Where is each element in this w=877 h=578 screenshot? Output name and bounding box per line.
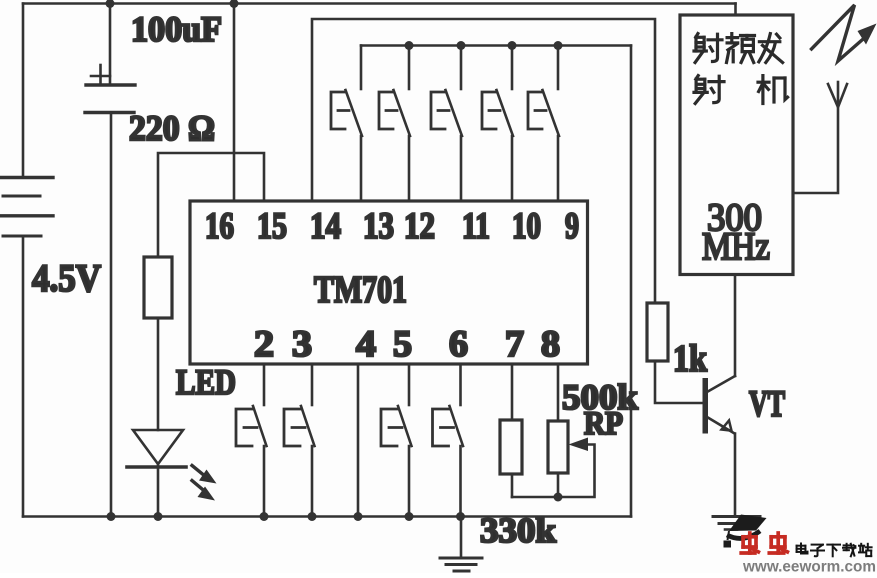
svg-text:1k: 1k [673, 338, 708, 380]
svg-text:9: 9 [565, 206, 579, 247]
pin label 2 [254, 324, 274, 365]
svg-text:220 Ω: 220 Ω [129, 108, 215, 148]
svg-text:8: 8 [541, 324, 560, 365]
wire top supply rail [23, 2, 736, 5]
ground (bottom bus) [440, 517, 482, 572]
node bus dots top [405, 41, 563, 50]
pin label 12 [404, 206, 435, 247]
svg-text:MHz: MHz [702, 225, 770, 268]
pin label 13 [363, 206, 394, 247]
svg-text:13: 13 [363, 206, 394, 247]
wire box top to supply [734, 4, 737, 16]
label VT [749, 384, 785, 425]
node RP bottom junction [554, 493, 563, 502]
svg-text:4.5V: 4.5V [32, 257, 101, 300]
svg-text:3: 3 [292, 324, 312, 365]
pin label 6 [449, 324, 468, 365]
svg-text:RP: RP [584, 406, 623, 442]
RP wiper arrow [569, 438, 589, 452]
node bus dots bottom [107, 512, 466, 521]
svg-text:6: 6 [449, 324, 468, 365]
wire pin4 to bus [357, 364, 360, 517]
pin label 11 [462, 206, 490, 247]
antenna [793, 82, 847, 193]
svg-text:7: 7 [505, 324, 524, 365]
svg-text:4: 4 [356, 324, 376, 365]
RF radiation zigzag arrow [812, 5, 877, 61]
pin label 5 [393, 324, 412, 365]
potentiometer RP 500k (pin8) [548, 364, 568, 497]
resistor R 220ohm [144, 257, 172, 318]
watermark url [742, 559, 876, 576]
label LED [176, 362, 236, 402]
svg-text:LED: LED [176, 362, 236, 402]
pin label 14 [310, 206, 341, 247]
label 300 [707, 196, 762, 239]
switch S2 (pin12) [379, 46, 410, 202]
label RF transmitter chinese 射频发/射机 (drawn) [694, 34, 788, 104]
label 220 ohm [129, 108, 215, 148]
switch S5 (pin9) [528, 46, 559, 202]
switch S9 (pin6) [433, 364, 464, 517]
switch S1 (pin13) [331, 46, 362, 202]
node supply-cap junction [106, 0, 115, 8]
svg-text:16: 16 [205, 206, 234, 247]
IC U1 TM701 [190, 201, 588, 364]
wire pin14 to 1k (upper loop) [312, 19, 655, 303]
switch S4 (pin10) [482, 46, 513, 202]
pin label 4 [356, 324, 376, 365]
pin label 15 [257, 206, 287, 247]
label 4.5V [32, 257, 101, 300]
pin label 3 [292, 324, 312, 365]
switch S8 (pin5) [381, 364, 412, 517]
capacitor C 100uF [85, 4, 135, 517]
label 330k [480, 511, 557, 550]
label 100uF [131, 9, 222, 49]
label 500k [562, 377, 638, 417]
svg-text:12: 12 [404, 206, 435, 247]
svg-text:100uF: 100uF [131, 9, 222, 49]
watermark graduation cap [724, 515, 767, 548]
svg-text:TM701: TM701 [314, 269, 407, 311]
watermark text dianzi xiazaizhan (drawn) [797, 544, 872, 557]
svg-text:10: 10 [512, 206, 541, 247]
svg-text:2: 2 [254, 324, 274, 365]
svg-text:www.eeworm.com: www.eeworm.com [742, 559, 876, 574]
watermark chongchong red characters [741, 533, 787, 553]
svg-text:15: 15 [257, 206, 287, 247]
wire RP bottom net [512, 445, 595, 498]
switch S7 (pin3) [284, 364, 315, 517]
label MHz [702, 225, 770, 268]
resistor R 1k [647, 303, 702, 403]
wire common line right side (bus to ground bus) [630, 46, 633, 517]
pin label 8 [541, 324, 560, 365]
pin label 10 [512, 206, 541, 247]
svg-text:VT: VT [749, 384, 785, 425]
node supply-pin16 junction [230, 0, 239, 8]
wire pin16 to supply [233, 4, 236, 202]
pin label 7 [505, 324, 524, 365]
wire 220R to pin15 [158, 153, 264, 257]
RF transmitter box [680, 15, 793, 275]
svg-text:5: 5 [393, 324, 412, 365]
wire bottom ground bus [23, 515, 631, 518]
label RP [584, 406, 623, 442]
svg-text:11: 11 [462, 206, 490, 247]
battery GB 4.5V [1, 4, 53, 517]
switch S6 (pin2) [236, 364, 267, 517]
ground (VT emitter) [713, 517, 760, 530]
transistor VT [703, 275, 736, 517]
LED emission arrows [192, 466, 217, 501]
svg-text:14: 14 [310, 206, 341, 247]
resistor R 330k (pin7) [500, 364, 522, 497]
pin label 9 [565, 206, 579, 247]
switch S3 (pin11) [431, 46, 462, 202]
LED [127, 318, 186, 517]
wire top switch bus [361, 44, 631, 47]
pin label 16 [205, 206, 234, 247]
label 1k [673, 338, 708, 380]
label TM701 [314, 269, 407, 311]
svg-text:330k: 330k [480, 511, 557, 550]
